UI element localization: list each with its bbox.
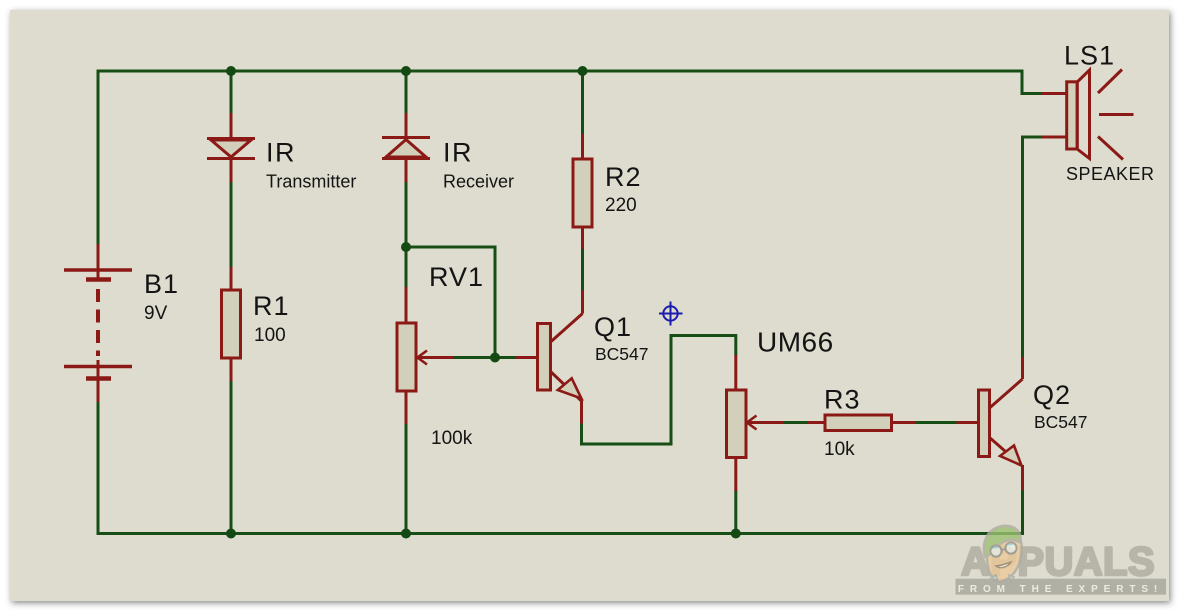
svg-text:B1: B1: [144, 269, 179, 299]
wire: IR transmitter cathode to R1: [230, 181, 233, 268]
svg-text:R1: R1: [253, 291, 290, 321]
svg-text:100k: 100k: [431, 428, 473, 449]
speaker LS1: [1042, 70, 1134, 160]
junction dot: top rail / R2: [578, 66, 588, 76]
wire: IR receiver anode down to RV1 node: [405, 181, 408, 288]
svg-text:UM66: UM66: [757, 327, 834, 358]
watermark ribbon FROM THE EXPERTS!: [956, 579, 1167, 595]
wire: Q1 emitter to UM66 top (down, right, up, right): [582, 336, 736, 445]
svg-text:100: 100: [254, 325, 286, 346]
svg-text:LS1: LS1: [1064, 41, 1115, 71]
svg-text:RV1: RV1: [429, 262, 484, 292]
melody generator UM66 (pot style body): [727, 355, 784, 491]
transistor Q2 BC547: [957, 357, 1023, 490]
resistor R3: [807, 415, 916, 431]
wire: R1 bottom to bottom rail: [230, 380, 233, 533]
wire: RV1 wiper to Q1 base: [452, 356, 516, 359]
junction dot: bottom rail / UM66: [731, 529, 741, 539]
diode D1 IR Transmitter: [207, 113, 255, 182]
svg-text:9V: 9V: [144, 303, 168, 324]
svg-text:BC547: BC547: [595, 344, 649, 364]
svg-text:Q1: Q1: [594, 312, 632, 342]
svg-text:IR: IR: [266, 138, 296, 168]
svg-text:R2: R2: [605, 162, 642, 192]
junction dot: RV1 wiper / Q1 base node: [490, 353, 500, 363]
svg-text:220: 220: [605, 195, 637, 216]
wire: UM66 bottom to bottom rail: [734, 490, 737, 533]
transistor Q1 BC547: [515, 290, 583, 424]
battery B1: [64, 244, 132, 402]
junction dot: top rail / IR receiver: [401, 66, 411, 76]
resistor R1: [222, 267, 241, 381]
diode D2 IR Receiver: [382, 113, 430, 182]
junction dot: bottom rail / R1: [226, 529, 236, 539]
wire: battery negative to bottom rail: [97, 401, 100, 532]
svg-text:Transmitter: Transmitter: [266, 172, 356, 192]
resistor R2: [573, 134, 592, 249]
junction dot: receiver / RV1 / Q1 base node: [401, 242, 411, 252]
svg-text:IR: IR: [443, 138, 473, 168]
wire: R2 bottom toward Q1 collector: [581, 248, 584, 290]
junction dot: top rail / IR transmitter: [226, 66, 236, 76]
svg-text:Receiver: Receiver: [443, 172, 514, 192]
wire: top rail to IR receiver cathode: [405, 71, 408, 114]
origin marker (blue crosshair): [659, 302, 683, 326]
svg-text:SPEAKER: SPEAKER: [1066, 164, 1155, 184]
potentiometer RV1: [397, 287, 453, 424]
svg-text:R3: R3: [824, 385, 861, 415]
wire: speaker minus terminal down to Q2 collector: [1023, 137, 1044, 358]
svg-text:10k: 10k: [824, 439, 855, 460]
svg-text:BC547: BC547: [1034, 412, 1088, 432]
svg-text:Q2: Q2: [1033, 380, 1071, 410]
junction dot: bottom rail / RV1: [401, 529, 411, 539]
wire: UM66 wiper to R3 left: [782, 421, 808, 424]
wire: bottom ground rail up to Q2 emitter: [98, 489, 1023, 535]
wire: node A to Q1 base branch (right and down): [406, 247, 495, 358]
wire: top power rail with left rail down to battery and right drop to speaker: [98, 71, 1043, 245]
svg-text:FROM THE EXPERTS!: FROM THE EXPERTS!: [958, 584, 1163, 595]
wire: top rail junction down to R2: [581, 71, 584, 135]
wire: top rail to IR transmitter anode: [230, 71, 233, 114]
wire: RV1 bottom to bottom rail: [405, 423, 408, 533]
watermark mascot: [984, 526, 1022, 582]
wire: R3 right to Q2 base: [915, 421, 957, 424]
